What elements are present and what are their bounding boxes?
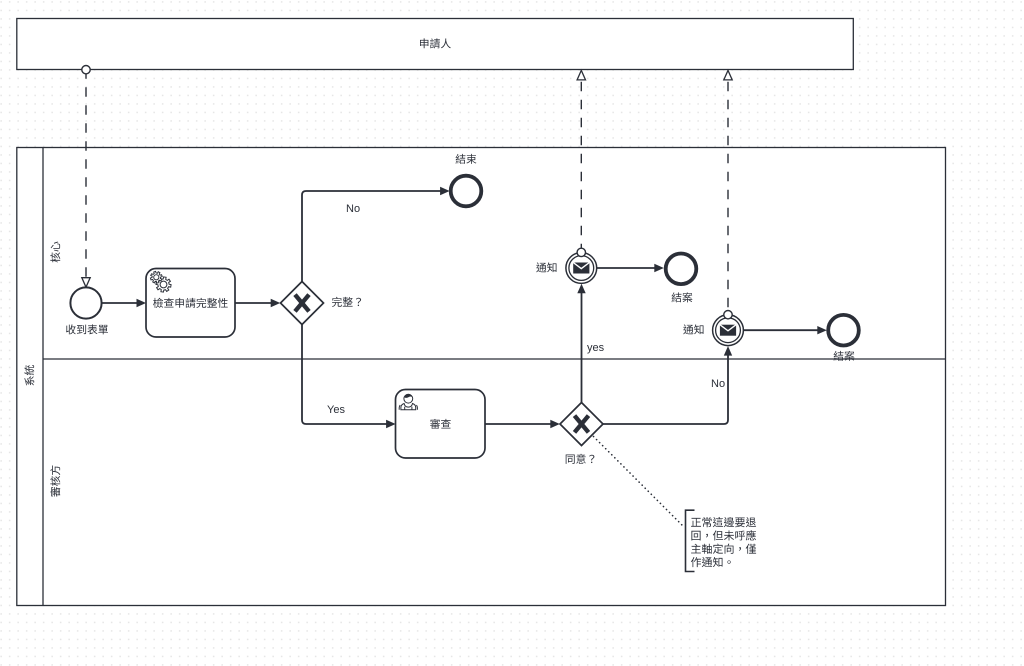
svg-text:No: No xyxy=(346,203,360,215)
end event 結案 (1) xyxy=(666,253,697,302)
sequence flow 收到表單→檢查申請完整性 xyxy=(102,299,146,307)
sequence flow 通知(2)→結案(2) xyxy=(744,326,827,334)
end event 結案 (2) xyxy=(828,315,859,361)
sequence flow 檢查申請完整性→完整? xyxy=(235,299,280,307)
task 審查 (user task) xyxy=(396,390,486,459)
sequence flow No 完整?→結束 xyxy=(302,187,450,282)
sequence flow 通知(1)→結案(1) xyxy=(597,264,664,272)
svg-text:yes: yes xyxy=(587,342,605,354)
sequence flow yes 同意?→通知(1) xyxy=(577,284,585,403)
sequence flow Yes 完整?→審查 xyxy=(302,325,396,429)
exclusive gateway 同意? xyxy=(560,403,603,464)
svg-text:No: No xyxy=(711,378,725,390)
task 檢查申請完整性 (service task) xyxy=(146,269,235,338)
message flow 通知(1)→申請人 (dashed) xyxy=(577,70,585,256)
message flow 申請人→收到表單 (dashed) xyxy=(82,66,90,288)
sequence flow No 同意?→通知(2) xyxy=(603,346,732,424)
end event 結束 xyxy=(451,154,482,206)
pool 系統 (system) with lanes 核心 / 審核方 xyxy=(17,148,946,606)
exclusive gateway 完整? xyxy=(281,282,362,325)
text annotation 正常這邊要退回，但未呼應主軸定向，僅作通知。 xyxy=(686,510,757,571)
start event 收到表單 xyxy=(66,287,108,334)
intermediate message event 通知 (2) xyxy=(683,315,743,346)
intermediate message event 通知 (1) xyxy=(536,253,596,284)
message flow 通知(2)→申請人 (dashed) xyxy=(724,70,732,319)
association 同意?→annotation (dotted) xyxy=(594,437,683,526)
sequence flow 審查→同意? xyxy=(485,420,560,428)
pool 申請人 (applicant) xyxy=(17,19,854,70)
svg-text:Yes: Yes xyxy=(327,404,345,416)
